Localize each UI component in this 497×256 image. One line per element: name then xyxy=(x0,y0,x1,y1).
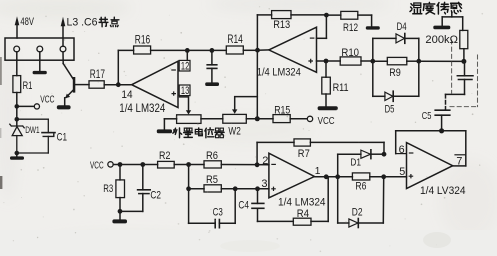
resistor R17 xyxy=(89,81,104,88)
node junction D1 cathode xyxy=(382,152,387,157)
sensor top wire xyxy=(442,13,463,26)
label 电 xyxy=(195,128,202,136)
U2A minus xyxy=(409,152,414,154)
wire terminal1 to R1 xyxy=(16,52,18,76)
VCC terminal circle xyxy=(34,104,39,109)
node junction R3 bottom xyxy=(118,209,123,214)
capacitor C5 xyxy=(435,110,450,131)
node junction left rail R9 xyxy=(370,59,375,64)
resistor R14 xyxy=(226,46,243,54)
resistor R4 xyxy=(293,177,328,225)
U1C plus xyxy=(271,187,276,191)
sensor lead dashed xyxy=(445,94,447,110)
pin 12 box xyxy=(179,60,190,71)
label 传 xyxy=(437,2,449,14)
pin 13 box xyxy=(179,85,190,96)
U2A plus xyxy=(409,174,414,178)
svg-text:2: 2 xyxy=(262,155,268,167)
resistor R15 xyxy=(273,115,290,123)
capacitor C1 xyxy=(17,119,55,153)
wiper W2 loop xyxy=(235,97,258,110)
rail U2 output down xyxy=(256,15,258,119)
svg-text:VCC: VCC xyxy=(318,116,335,127)
node junction output U1A xyxy=(116,82,121,87)
wire R17 to opamp1 output xyxy=(104,84,132,86)
diode D2 xyxy=(338,177,384,228)
scan speckle noise xyxy=(161,39,162,40)
ground pot1 xyxy=(157,129,172,133)
svg-text:R1: R1 xyxy=(23,80,33,92)
svg-text:R6: R6 xyxy=(355,181,366,193)
transistor Q1 xyxy=(57,52,89,110)
wire right rail to sensor column xyxy=(419,60,464,62)
capacitor at node xyxy=(207,50,217,82)
node junction D-network right xyxy=(381,174,386,179)
wire R6 to pin2 xyxy=(221,164,269,166)
wire pot1 to W2 xyxy=(201,118,223,120)
svg-text:R9: R9 xyxy=(389,67,401,79)
svg-text:D2: D2 xyxy=(352,207,363,219)
op-amp U1B 1/4 LM324 xyxy=(269,27,317,72)
label 外 xyxy=(173,128,182,138)
wire pin6-pin7 top xyxy=(396,130,466,132)
wire R10 to left rail xyxy=(361,60,373,62)
svg-text:R5: R5 xyxy=(206,174,218,186)
wire node to DW1 xyxy=(14,106,19,126)
svg-text:D4: D4 xyxy=(397,21,407,33)
wire to VCC tap xyxy=(17,105,34,107)
wire VCC to R2 xyxy=(113,164,157,166)
VCC terminal circle 2 xyxy=(307,116,312,121)
svg-text:VCC: VCC xyxy=(40,95,54,106)
diode D5 xyxy=(373,91,419,101)
resistor R1 xyxy=(13,76,21,93)
svg-text:DW1: DW1 xyxy=(25,125,39,136)
label 点 xyxy=(111,17,119,26)
svg-text:R3: R3 xyxy=(103,183,113,195)
resistor R12 xyxy=(326,11,371,26)
svg-text:VCC: VCC xyxy=(90,160,104,171)
resistor R6 input xyxy=(204,161,221,168)
svg-text:W2: W2 xyxy=(228,126,240,138)
resistor 200k xyxy=(460,17,468,62)
op-amp U2A 1/4 LV324 xyxy=(407,143,453,189)
svg-text:L3 .C6: L3 .C6 xyxy=(67,16,98,28)
node junction R11 top xyxy=(324,59,329,64)
diode D1 xyxy=(338,150,384,177)
node junction W2-R15-rail xyxy=(255,116,260,121)
svg-text:D5: D5 xyxy=(385,103,395,115)
node arrow L3.C6 xyxy=(61,17,66,47)
VCC terminal circle 3 xyxy=(108,162,113,167)
ground R11 xyxy=(318,106,338,110)
resistor R11 xyxy=(322,61,331,106)
node junction R13-R12 xyxy=(324,13,329,18)
svg-text:200kΩ: 200kΩ xyxy=(425,34,458,46)
svg-text:R12: R12 xyxy=(343,22,358,34)
ground R12 xyxy=(366,26,380,29)
resistor R10 xyxy=(340,57,361,65)
wire R2 to R6 xyxy=(174,164,204,166)
node junction R5 left xyxy=(186,186,191,191)
node junction R16-pin12 xyxy=(185,48,190,53)
svg-text:R6: R6 xyxy=(206,150,218,162)
svg-text:R13: R13 xyxy=(273,19,290,31)
wire cap node to R14 xyxy=(212,49,226,51)
svg-text:C4: C4 xyxy=(238,199,249,211)
feedback wire to R7 xyxy=(257,142,294,164)
op-amp U1A 1/4 LM324 xyxy=(132,61,178,107)
wire R16 to node xyxy=(151,49,188,51)
resistor R3 xyxy=(116,165,125,212)
svg-text:R14: R14 xyxy=(227,32,243,46)
potentiometer W2 xyxy=(223,114,247,123)
node junction R5 right xyxy=(233,186,238,191)
node junction pin3 xyxy=(255,186,260,191)
U1C minus xyxy=(271,163,276,165)
wire pin13 to pot wiper xyxy=(180,96,189,111)
wire R15 to VCC xyxy=(290,118,307,120)
humidity sensor capacitor xyxy=(446,61,474,94)
wire R7 to right rail xyxy=(310,142,384,154)
label 器 xyxy=(215,128,224,138)
svg-text:R15: R15 xyxy=(274,104,290,116)
node junction R3 top xyxy=(118,162,123,167)
wire node down to minus input xyxy=(317,15,327,38)
resistor R13 xyxy=(272,11,291,19)
U1B plus xyxy=(308,59,313,63)
svg-text:7: 7 xyxy=(456,155,462,167)
ground sensor top xyxy=(433,26,450,30)
right rail D4-D5 xyxy=(418,38,420,96)
label 度 xyxy=(423,2,434,14)
wire plus input to R10 xyxy=(317,60,341,62)
node junction cap xyxy=(210,48,215,53)
ground terminal2 xyxy=(33,52,47,75)
svg-text:R16: R16 xyxy=(135,32,151,46)
output wire U2A pin7 xyxy=(453,131,466,166)
svg-text:C3: C3 xyxy=(213,206,223,218)
svg-text:14: 14 xyxy=(121,89,132,101)
label 位 xyxy=(205,128,214,138)
wire node to cap xyxy=(187,49,212,51)
svg-text:1/4 LM324: 1/4 LM324 xyxy=(278,196,326,208)
feedback wire to R16 xyxy=(118,50,133,84)
node junction DW1-C1 bottom xyxy=(14,151,19,156)
node junction R2-R6 xyxy=(186,162,191,167)
U1B minus xyxy=(310,37,315,39)
node junction C2 top xyxy=(140,162,145,167)
svg-text:13: 13 xyxy=(181,85,189,97)
label 感 xyxy=(451,2,462,13)
node junction R1-VCC xyxy=(14,104,19,109)
label 置 xyxy=(184,128,193,137)
node junction right rail R9 xyxy=(416,59,421,64)
resistor R16 xyxy=(134,46,151,54)
svg-text:C1: C1 xyxy=(57,131,67,143)
node junction C5 bottom xyxy=(439,128,444,133)
svg-text:R17: R17 xyxy=(90,68,105,81)
label 湿 xyxy=(410,3,422,14)
svg-text:D1: D1 xyxy=(350,157,361,168)
svg-text:C5: C5 xyxy=(422,111,432,122)
svg-text:1: 1 xyxy=(315,166,321,177)
svg-text:R7: R7 xyxy=(298,148,310,160)
svg-text:5: 5 xyxy=(399,166,405,178)
potentiometer external (pot1) xyxy=(177,115,201,124)
wire R13 to node xyxy=(291,14,326,16)
wire pin12 up xyxy=(186,50,188,60)
power arrow 48V xyxy=(15,16,20,38)
wire pin6 lead xyxy=(396,131,407,154)
label 节 xyxy=(99,17,108,26)
resistor R6 feedback xyxy=(352,173,406,180)
wire R14 to U2 output node xyxy=(243,49,257,51)
diode D4 xyxy=(373,34,419,44)
U1A plus xyxy=(172,91,177,95)
scan edge artifacts xyxy=(0,57,451,252)
node junction 200k bottom xyxy=(461,59,466,64)
svg-text:R2: R2 xyxy=(159,150,170,162)
capacitor C3 loop xyxy=(189,189,236,228)
wire down to R5 xyxy=(188,165,190,189)
svg-text:R11: R11 xyxy=(333,82,349,94)
resistor R2 xyxy=(158,161,175,168)
node junction R4 feedback xyxy=(324,174,329,179)
svg-text:6: 6 xyxy=(399,144,405,156)
svg-text:3: 3 xyxy=(261,178,267,190)
resistor R9 xyxy=(373,57,419,64)
capacitor C4 xyxy=(252,189,293,222)
wiper arrow W2 xyxy=(232,109,237,113)
svg-text:R10: R10 xyxy=(341,47,359,59)
op-amp U1C 1/4 LM324 xyxy=(269,153,315,198)
U1A minus xyxy=(171,69,176,71)
ground below DW1 xyxy=(10,153,24,160)
dashed enclosure xyxy=(450,40,478,107)
svg-text:C2: C2 xyxy=(150,189,161,201)
wiper arrow pot1 xyxy=(186,110,191,114)
ground below cap xyxy=(205,82,219,86)
ground R3 xyxy=(112,211,127,223)
output wire U1C xyxy=(314,176,352,178)
resistor R5 xyxy=(189,185,269,192)
svg-text:48V: 48V xyxy=(20,16,34,28)
svg-text:R4: R4 xyxy=(297,208,309,220)
left rail D4-D5 xyxy=(372,38,374,96)
capacitor C2 xyxy=(120,165,150,212)
wire R1 to node xyxy=(16,93,18,107)
terminal block xyxy=(5,38,74,60)
feedback wire to R13 xyxy=(257,14,271,16)
resistor R7 xyxy=(294,139,310,146)
node junction U2 output xyxy=(255,48,260,53)
svg-text:12: 12 xyxy=(181,60,189,72)
svg-text:1/4 LM324: 1/4 LM324 xyxy=(119,102,165,115)
wire node to apex xyxy=(258,49,269,51)
zener DW1 xyxy=(10,124,24,153)
node junction pin2 xyxy=(255,162,260,167)
svg-text:1/4 LV324: 1/4 LV324 xyxy=(420,185,466,197)
svg-text:1/4 LM324: 1/4 LM324 xyxy=(257,66,301,78)
wire pot1 left to ground xyxy=(164,119,176,130)
wire W2 to R15 xyxy=(246,118,273,120)
node junction D-network left xyxy=(335,174,340,179)
